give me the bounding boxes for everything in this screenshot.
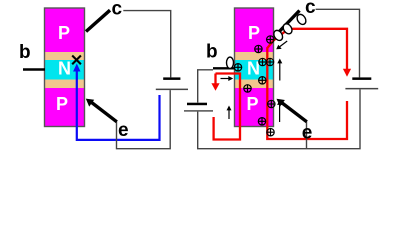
emitter region P (top) right transistor (235, 8, 274, 52)
battery B1 short thick plate (163, 77, 180, 80)
hole symbol 6 (259, 77, 266, 84)
base region N left transistor (45, 59, 85, 80)
svg-text:P: P (248, 23, 260, 43)
hole symbol 2 (255, 45, 262, 52)
base region N right transistor (235, 59, 274, 80)
hole symbol 8 (268, 100, 275, 107)
collector region P (bottom) left transistor (45, 88, 85, 127)
emitter wire vertical right (306, 122, 308, 149)
block border right transistor (235, 8, 274, 127)
base lead wire b right (213, 67, 235, 69)
emitter arrow e right (thick diagonal) (282, 103, 307, 122)
electron circle 3 on collector lead (295, 13, 307, 26)
X mark (junction blocked) (72, 56, 81, 65)
emitter region P (top) left transistor (45, 8, 85, 52)
flow arrow up beside P left side (227, 106, 232, 120)
battery B2 short thick plate (352, 77, 371, 80)
red base current path (214, 74, 240, 140)
svg-text:N: N (247, 59, 260, 79)
hole symbol 3 (234, 64, 241, 71)
hole symbol 7 (244, 85, 251, 92)
svg-text:b: b (19, 42, 31, 63)
depletion stripe 1 left transistor (45, 52, 85, 60)
electron circle 1 on collector lead (272, 29, 284, 42)
depletion stripe 2 left transistor (45, 80, 85, 89)
battery B2 long thin plate (345, 88, 378, 90)
emitter arrow e (thick diagonal) (91, 102, 117, 122)
red base arrow into battery B3 (211, 74, 219, 91)
collector lead (thick diagonal) to c right (275, 11, 300, 37)
red collector-emitter current path (267, 29, 347, 139)
svg-text:c: c (112, 0, 123, 19)
hole symbol 10 (267, 129, 274, 136)
svg-text:b: b (206, 42, 218, 63)
flow arrow up beside P right side (277, 100, 282, 122)
emitter arrowhead (86, 99, 94, 107)
blue arrowhead into N region (73, 64, 80, 72)
electron circle on base lead (227, 57, 234, 68)
hole symbol 9 (258, 118, 265, 125)
hole symbol 4 (259, 58, 266, 65)
electron circle 2 on collector lead (281, 22, 293, 35)
hole symbol 5 (266, 58, 273, 65)
svg-text:P: P (56, 94, 68, 114)
svg-text:P: P (246, 94, 258, 114)
svg-text:P: P (58, 23, 70, 43)
battery B3 long thin plate (184, 110, 213, 111)
wire base battery to ground rail (198, 90, 360, 149)
depletion stripe 2 right transistor (235, 80, 274, 89)
blue blocked-current wire (77, 69, 160, 140)
flow arrow down-left at collector corner (276, 41, 287, 49)
wire c to battery (123, 11, 170, 78)
svg-text:e: e (118, 120, 129, 141)
base lead wire b (23, 68, 45, 70)
flow arrow into N left side (221, 76, 234, 81)
wire c to battery B2 (316, 9, 360, 77)
wire battery to emitter (117, 90, 171, 149)
collector region P (bottom) right transistor (235, 88, 274, 127)
wire b to base battery (198, 70, 213, 103)
svg-text:c: c (305, 0, 316, 18)
battery B3 short thick plate (187, 103, 207, 106)
red arrowhead into battery B2 (343, 69, 351, 77)
block border left transistor (45, 8, 85, 127)
svg-text:N: N (58, 59, 71, 79)
battery B1 long thin plate (156, 89, 188, 91)
flow arrow up beside N right side (277, 59, 282, 81)
hole symbol 1 (267, 36, 274, 43)
collector lead (thick diagonal) to c (86, 10, 110, 31)
emitter arrowhead right (277, 99, 285, 107)
svg-text:e: e (302, 122, 313, 143)
depletion stripe 1 right transistor (235, 52, 274, 60)
